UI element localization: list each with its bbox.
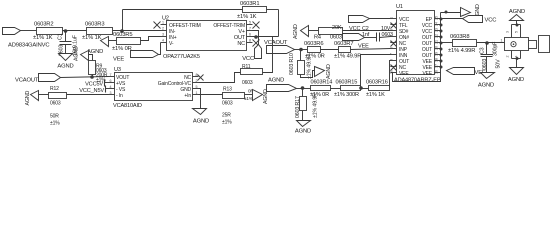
svg-text:VCAOUT: VCAOUT (264, 40, 288, 46)
svg-text:AGND: AGND (508, 77, 524, 83)
svg-text:0603: 0603 (50, 101, 61, 107)
ground AGND sideways for R10 (315, 67, 325, 77)
connector J1 body (505, 38, 529, 51)
wire C2 to U1 ON# (380, 37, 391, 38)
wire R8 to connector (477, 42, 505, 44)
resistor R13 (223, 93, 245, 99)
svg-text:0603R8: 0603R8 (450, 34, 469, 40)
wire input flag to R2 (21, 30, 37, 32)
svg-text:0603: 0603 (242, 80, 253, 86)
wire R9 to VOUT wire (92, 75, 94, 77)
svg-text:0603 R17: 0603 R17 (295, 96, 301, 118)
U3 right pin NC (193, 76, 199, 78)
svg-text:0603R16: 0603R16 (366, 79, 388, 85)
junction INN tap (359, 86, 363, 90)
ground AGND sideways for R9 (81, 51, 89, 61)
svg-text:300pF: 300pF (493, 41, 499, 56)
svg-text:0603 R10: 0603 R10 (289, 53, 295, 75)
resistor R3 (87, 28, 113, 35)
svg-text:2: 2 (196, 79, 198, 83)
resistor R9 vertical (89, 61, 96, 75)
svg-text:R13: R13 (223, 87, 232, 93)
wire U1 INN network (361, 55, 391, 89)
svg-text:±1% 1K: ±1% 1K (33, 35, 53, 41)
resistor R8 (453, 40, 477, 47)
wire AGND to R9 (89, 55, 93, 61)
wire VCC to U1 VCC pin (370, 18, 391, 20)
wire U1 OUT left to feedback R16 (390, 61, 391, 89)
wire feedback top (123, 9, 243, 11)
svg-text:±1%: ±1% (244, 96, 253, 101)
wire AGND flag to R14 (297, 88, 311, 90)
svg-text:50V: 50V (496, 59, 502, 69)
svg-text:R12: R12 (50, 86, 59, 92)
capacitor C3 (486, 43, 488, 55)
wire R3 to U2 IN- (113, 30, 161, 32)
U1 right pin EP (435, 18, 441, 20)
svg-text:21: 21 (435, 40, 439, 44)
no-connect X on U2 pin 5 (253, 22, 260, 29)
ground AGND below C3 (481, 73, 495, 79)
U2 pin IN+ (161, 36, 167, 38)
svg-text:0603R15: 0603R15 (336, 79, 358, 85)
svg-text:±1% 49.9R: ±1% 49.9R (334, 54, 361, 60)
svg-text:VEE: VEE (422, 71, 432, 77)
wire VEE to C2 (365, 37, 377, 39)
wire bus to VCC flag (441, 18, 463, 20)
svg-text:AGND: AGND (295, 129, 311, 134)
wire V- to VEE flag (159, 43, 161, 55)
wire U3 GND to AGND (199, 89, 201, 109)
resistor R17 vertical (302, 89, 304, 97)
svg-text:5: 5 (249, 21, 251, 25)
power VCC flag right (463, 16, 483, 23)
wire U1 right bus (440, 13, 442, 71)
svg-text:VCA810AID: VCA810AID (113, 103, 142, 109)
svg-text:0603R1: 0603R1 (240, 1, 259, 7)
U1 right pin OUT (435, 54, 441, 56)
no-connect X on U2 pin 8 (253, 40, 260, 47)
svg-text:VEE: VEE (399, 71, 409, 77)
U2 pin OUT (247, 36, 253, 38)
svg-text:VEE: VEE (358, 44, 369, 50)
U1 right pin VCC (435, 24, 441, 26)
svg-text:4: 4 (110, 85, 112, 89)
VCA U3 box (115, 73, 193, 101)
svg-text:U3: U3 (114, 67, 121, 73)
resistor R10 vertical (300, 50, 302, 61)
resistor R1 (243, 7, 267, 13)
svg-text:22: 22 (435, 34, 439, 38)
svg-text:C3: C3 (480, 47, 486, 54)
junction U2 OUT (254, 35, 258, 39)
svg-text:VCC: VCC (349, 26, 360, 32)
U2 pin IN- (161, 30, 167, 32)
svg-text:VCAOUT: VCAOUT (15, 78, 39, 84)
U1 left pin NC (9) (391, 66, 397, 68)
U3 right pin +In (193, 94, 199, 96)
power VEE flag for C2 (343, 34, 365, 41)
svg-text:8: 8 (249, 39, 251, 43)
svg-text:0603R3: 0603R3 (85, 22, 104, 28)
svg-text:- In: - In (116, 93, 123, 99)
svg-text:16: 16 (435, 70, 439, 74)
U1 right pin VCC (435, 30, 441, 32)
wire R2 to junction (63, 30, 87, 32)
U1 left pin TFL (2) (391, 24, 397, 26)
svg-text:3: 3 (506, 31, 510, 33)
no-connect X on U1 NC pin9 (391, 65, 397, 71)
power VEE flag right (447, 68, 475, 75)
svg-text:24: 24 (435, 22, 439, 26)
no-connect X on U1 TFL (391, 23, 397, 29)
svg-text:C1: C1 (58, 33, 64, 40)
svg-text:±1% 1K: ±1% 1K (237, 14, 257, 20)
svg-text:0.1uF: 0.1uF (73, 34, 79, 48)
wire VCAOUT to U3 VOUT (61, 77, 109, 78)
U1 left pin INP (6) (391, 48, 397, 50)
svg-text:1: 1 (162, 21, 164, 25)
ground AGND below C1 (59, 54, 73, 61)
U1 right pin OUT (435, 42, 441, 44)
svg-text:AGND: AGND (74, 46, 80, 61)
svg-text:AGND: AGND (57, 64, 73, 70)
wire VCC5V to +VS (105, 82, 109, 84)
svg-text:50R: 50R (50, 114, 59, 120)
svg-text:AGND: AGND (193, 119, 209, 125)
junction C3 tap (485, 41, 489, 45)
svg-text:VCC: VCC (242, 56, 254, 62)
wire OUT bus to R8 (441, 42, 453, 44)
ground AGND below connector (510, 68, 524, 75)
no-connect X on U3 NC (198, 75, 204, 81)
svg-text:6: 6 (110, 79, 112, 83)
svg-text:4: 4 (515, 56, 519, 58)
ground AGND below R17 (297, 121, 311, 127)
wire R7 to U1 INP (351, 49, 391, 50)
svg-text:23: 23 (435, 28, 439, 32)
resistor R4 (319, 28, 343, 35)
wire AGND to R4 (309, 30, 319, 32)
node AD9834GAINVC input flag (3, 28, 21, 35)
ground AGND for R5 (101, 37, 109, 47)
ground AGND sideways for R4 (301, 26, 309, 37)
resistor R5 (117, 38, 141, 45)
svg-text:8: 8 (196, 73, 198, 77)
svg-text:AGND: AGND (478, 83, 494, 89)
ground AGND below U3 (193, 109, 207, 115)
U3 right pin GND (193, 88, 199, 90)
resistor R14 (311, 86, 331, 91)
svg-text:V-: V- (169, 41, 174, 47)
wire R13 to AGND (245, 94, 253, 96)
ground AGND sideways top right (461, 8, 471, 17)
U2 pin V- (161, 42, 167, 44)
svg-text:U1: U1 (396, 4, 403, 10)
ground AGND sideways right of R13 (253, 90, 263, 101)
svg-text:4: 4 (162, 39, 164, 43)
svg-text:0603R6: 0603R6 (304, 41, 323, 47)
U3 right pin GainControl-VC (193, 82, 199, 84)
U3 left pin +VS (109, 82, 115, 84)
svg-text:VCC5V: VCC5V (85, 82, 103, 88)
wire R15 to R16 (361, 88, 369, 90)
U2 pin OFFEST-TRIM left (161, 24, 167, 26)
connector top pins 3 5 to AGND (511, 25, 513, 38)
svg-text:2: 2 (506, 56, 510, 58)
svg-text:0603R5: 0603R5 (113, 32, 132, 38)
svg-text:25R: 25R (222, 113, 231, 119)
svg-text:4: 4 (390, 35, 394, 37)
wire AGND to R5 (109, 40, 117, 42)
svg-text:±1% 0R: ±1% 0R (305, 54, 325, 60)
power VEE flag for U2 (131, 51, 159, 58)
svg-text:25: 25 (435, 16, 439, 20)
node VCAOUT flag middle (267, 46, 295, 54)
svg-text:2: 2 (162, 27, 164, 31)
junction feedback tap (120, 29, 124, 33)
U1 left pin VCC (1) (391, 18, 397, 20)
wire AGND to R12 (39, 94, 49, 96)
svg-text:±1%: ±1% (222, 120, 232, 126)
power VCC flag top (349, 16, 370, 23)
op-amp U2 box (167, 21, 247, 51)
svg-text:1nf: 1nf (362, 32, 370, 38)
wire feedback vertical left (122, 10, 124, 31)
svg-text:1: 1 (390, 17, 394, 19)
svg-text:0603R7: 0603R7 (334, 41, 353, 47)
wire R4 to U1 SD# (343, 30, 391, 32)
svg-text:0603R2: 0603R2 (34, 22, 53, 28)
svg-text:VEE: VEE (113, 57, 124, 63)
resistor R2 (37, 28, 63, 35)
power VCC for U2 (255, 45, 262, 59)
svg-text:OPA277UA2K5: OPA277UA2K5 (163, 54, 200, 60)
U1 left pin OUT (8) (391, 60, 397, 62)
resistor R6 (308, 47, 321, 53)
svg-text:3: 3 (162, 33, 164, 37)
svg-text:7: 7 (110, 73, 112, 77)
resistor R15 (341, 86, 361, 91)
svg-text:ADA4870ARRZ-EP: ADA4870ARRZ-EP (394, 78, 441, 84)
svg-text:0603: 0603 (222, 101, 233, 107)
wire VCAOUT to R6 (295, 49, 308, 51)
wire R10 bottom to sideways AGND (301, 71, 317, 78)
svg-text:±1% 1K: ±1% 1K (82, 35, 102, 41)
svg-text:±1% 0R: ±1% 0R (310, 92, 329, 98)
svg-text:NC: NC (237, 41, 245, 47)
svg-text:6: 6 (249, 33, 251, 37)
wire R11 to U2 OUT node (263, 37, 273, 73)
junction R9 tap (90, 75, 94, 79)
svg-text:AGND: AGND (268, 78, 284, 84)
connector J1 barrel (539, 36, 550, 53)
U1 left pin ON# (4) (391, 36, 397, 38)
svg-text:20: 20 (435, 46, 439, 50)
svg-text:3: 3 (390, 29, 394, 31)
svg-text:0603R14: 0603R14 (311, 79, 333, 85)
amplifier U1 box (397, 11, 435, 75)
svg-text:±1% 300R: ±1% 300R (334, 92, 359, 98)
svg-text:AD9834GAINVC: AD9834GAINVC (8, 43, 49, 49)
U3 left pin VOUT (109, 76, 115, 78)
U1 right pin VEE (435, 72, 441, 74)
wire U1 VEE left routed under chip (391, 71, 441, 82)
U1 left pin SD# (3) (391, 30, 397, 32)
U2 pin V+ (247, 30, 253, 32)
svg-text:19: 19 (435, 52, 439, 56)
capacitor C2 series (376, 33, 378, 42)
svg-text:20K: 20K (332, 25, 342, 31)
wire R17 to AGND (302, 111, 304, 121)
no-connect X on U2 pin 1 (154, 22, 161, 29)
connector bottom pins 2 4 to AGND (511, 51, 513, 59)
capacitor C1 (65, 31, 67, 42)
wire U2 V+ to VCC (253, 31, 259, 45)
U1 left pin INN (7) (391, 54, 397, 56)
svg-text:+In: +In (184, 93, 191, 99)
svg-text:17: 17 (435, 64, 439, 68)
wire bus top to AGND (441, 12, 461, 14)
svg-text:0603: 0603 (330, 35, 342, 41)
no-connect X on U1 NC pin5 (391, 41, 397, 47)
junction C1 tap (64, 29, 68, 33)
U1 right pin VEE (435, 60, 441, 62)
svg-text:R4: R4 (314, 35, 321, 41)
U3 left pin - VS (109, 88, 115, 90)
connector J1 step (529, 41, 537, 49)
wire R1 to output node (267, 9, 279, 11)
svg-text:±1% 4.99R: ±1% 4.99R (448, 48, 475, 54)
resistor R12 (49, 93, 67, 99)
U1 left pin NC (5) (391, 42, 397, 44)
svg-text:VCC_N5V: VCC_N5V (79, 88, 104, 94)
wire VCC_N5V to -VS (106, 88, 109, 90)
wire R6 to R7 (321, 49, 339, 51)
U2 pin OFFEST-TRIM right (247, 24, 253, 26)
svg-text:AGND: AGND (293, 24, 299, 39)
U2 pin NC (247, 42, 253, 44)
U3 left pin - In (109, 94, 115, 96)
resistor R7 (339, 47, 351, 53)
svg-text:AGND: AGND (25, 90, 31, 105)
wire U3 VC to R11 (199, 73, 241, 83)
svg-text:18: 18 (435, 58, 439, 62)
svg-text:1: 1 (196, 91, 198, 95)
resistor R11 (241, 69, 263, 75)
svg-text:±1%: ±1% (50, 121, 60, 127)
svg-text:5: 5 (515, 31, 519, 33)
wire R5 to U2 IN+ (141, 37, 161, 41)
svg-text:AGND: AGND (509, 9, 525, 15)
svg-text:0603: 0603 (482, 59, 488, 70)
svg-text:AGND: AGND (326, 64, 332, 79)
svg-text:±1% 0R: ±1% 0R (112, 46, 132, 52)
ground AGND sideways for R12 (31, 91, 39, 101)
junction R17 tap (301, 86, 305, 90)
svg-text:5: 5 (196, 85, 198, 89)
wire R14 to R15 (331, 88, 341, 90)
wire R12 to U3 -In (67, 94, 109, 96)
U1 right pin OUT (435, 48, 441, 50)
resistor R16 (369, 86, 390, 91)
svg-text:1: 1 (501, 39, 503, 43)
ground AGND above connector (510, 15, 524, 21)
U1 right pin OUT (435, 36, 441, 38)
wire U2 OUT node (253, 36, 279, 38)
U1 right pin VEE (435, 66, 441, 68)
svg-text:7: 7 (249, 27, 251, 31)
svg-text:6: 6 (390, 47, 394, 49)
svg-text:3: 3 (110, 91, 112, 95)
svg-text:R11: R11 (242, 64, 251, 70)
wire U3 +In to R13 (199, 94, 223, 96)
junction R10 tap (299, 48, 303, 52)
svg-text:±1% 1K: ±1% 1K (366, 92, 385, 98)
svg-text:VCC: VCC (485, 18, 497, 24)
U1 left pin VEE (10) (391, 72, 397, 74)
